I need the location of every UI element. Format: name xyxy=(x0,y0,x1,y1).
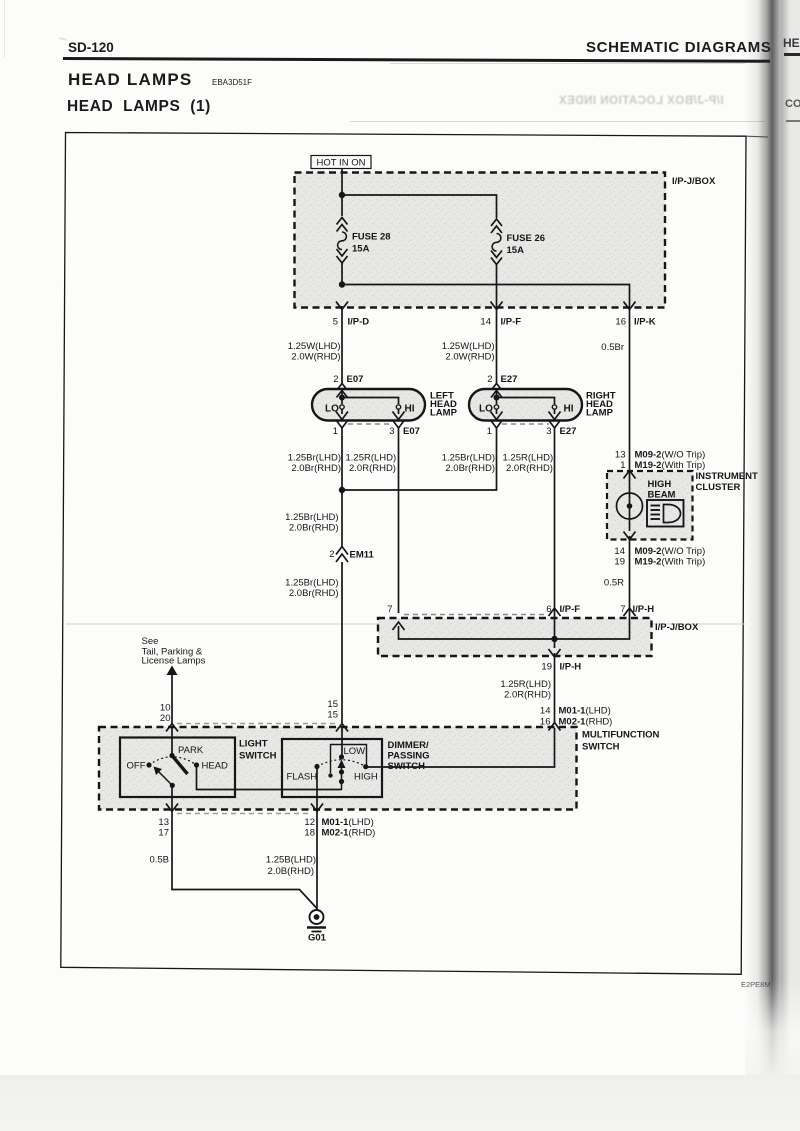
fuse F26 xyxy=(491,219,502,265)
svg-text:1.25R(LHD): 1.25R(LHD) xyxy=(346,453,397,464)
svg-text:2.0Br(RHD): 2.0Br(RHD) xyxy=(289,588,339,599)
connector pin 5 I/P-D xyxy=(336,302,348,317)
labels below EM11 xyxy=(285,578,338,600)
svg-text:19: 19 xyxy=(614,557,625,568)
svg-text:14: 14 xyxy=(480,317,491,328)
connector EM11 xyxy=(329,547,374,563)
light switch blade (thick) xyxy=(172,756,188,775)
svg-text:18: 18 xyxy=(304,828,315,839)
bottom scanner strip xyxy=(0,1075,800,1131)
svg-text:1.25Br(LHD): 1.25Br(LHD) xyxy=(285,512,338,523)
rule echo xyxy=(390,63,745,64)
lamp pin 1 chevrons xyxy=(336,409,348,428)
light switch wiper arrow xyxy=(157,770,173,786)
svg-text:12: 12 xyxy=(304,817,315,828)
svg-text:LIGHT: LIGHT xyxy=(239,739,268,750)
svg-text:M19-2(With Trip): M19-2(With Trip) xyxy=(635,460,706,471)
svg-text:1.25W(LHD): 1.25W(LHD) xyxy=(442,341,495,352)
wire: I/P-K down to cluster xyxy=(629,316,631,470)
svg-text:I/P-J/BOX: I/P-J/BOX xyxy=(655,622,699,633)
svg-text:SWITCH: SWITCH xyxy=(239,751,277,762)
connector arrow out 19 I/P-H xyxy=(549,649,561,657)
subtitle HEAD LAMPS (1) xyxy=(67,98,211,116)
wire: fuse 28 out to bus xyxy=(341,263,343,285)
svg-text:7: 7 xyxy=(387,604,392,615)
svg-text:14: 14 xyxy=(540,706,551,717)
svg-text:E27: E27 xyxy=(501,374,518,385)
light switch contacts xyxy=(169,753,174,758)
svg-text:1: 1 xyxy=(333,426,338,437)
svg-text:HOT IN ON: HOT IN ON xyxy=(317,158,366,169)
svg-text:LOW: LOW xyxy=(344,746,366,757)
label RIGHT HEAD LAMP xyxy=(586,391,616,419)
wire: junction to fuse 26 xyxy=(342,195,497,218)
svg-text:2.0Br(RHD): 2.0Br(RHD) xyxy=(291,463,341,474)
svg-text:5: 5 xyxy=(333,317,338,328)
svg-text:1.25B(LHD): 1.25B(LHD) xyxy=(266,855,316,866)
svg-text:I/P-F: I/P-F xyxy=(560,604,581,615)
svg-text:2.0B(RHD): 2.0B(RHD) xyxy=(268,866,314,877)
wire gauge labels row 2 xyxy=(288,453,554,475)
svg-text:M09-2(W/O Trip): M09-2(W/O Trip) xyxy=(635,546,706,557)
wire: HIGH across to pin 14/16 xyxy=(367,728,555,767)
dimmer blade with arrow xyxy=(341,766,343,790)
connector E07 dashed link xyxy=(348,423,393,425)
box body xyxy=(378,618,652,656)
wire: cluster down to I/P-H xyxy=(629,546,631,612)
next page sliver at right edge xyxy=(781,0,800,1075)
connector dashed link 13-12 xyxy=(177,813,312,815)
left head lamp body E07 xyxy=(312,389,425,421)
connector arrows into box xyxy=(393,622,405,630)
svg-text:1: 1 xyxy=(620,460,625,471)
svg-text:2.0R(RHD): 2.0R(RHD) xyxy=(504,690,551,701)
svg-text:0.5Br: 0.5Br xyxy=(601,342,624,353)
svg-text:FLASH: FLASH xyxy=(287,772,318,783)
svg-text:2.0Br(RHD): 2.0Br(RHD) xyxy=(445,463,495,474)
svg-text:1.25Br(LHD): 1.25Br(LHD) xyxy=(285,578,338,589)
light switch box xyxy=(120,738,235,798)
pin labels under fuse box xyxy=(333,317,656,328)
svg-text:MULTIFUNCTION: MULTIFUNCTION xyxy=(582,730,660,741)
dimmer contact arc xyxy=(317,760,366,767)
svg-text:1.25R(LHD): 1.25R(LHD) xyxy=(500,679,551,690)
svg-text:E07: E07 xyxy=(403,426,420,437)
svg-text:HIGH: HIGH xyxy=(648,479,672,490)
high beam icon xyxy=(647,500,684,527)
svg-text:20: 20 xyxy=(160,713,171,724)
header SCHEMATIC DIAGRAMS xyxy=(586,39,772,56)
connector arrow into right lamp xyxy=(491,384,503,392)
fuse box I/P-J/BOX (upper) xyxy=(295,173,666,308)
arrow to other page xyxy=(167,666,178,676)
svg-text:2: 2 xyxy=(333,374,338,385)
svg-text:2.0W(RHD): 2.0W(RHD) xyxy=(445,352,494,363)
labels above EM11 xyxy=(285,512,338,534)
svg-text:15: 15 xyxy=(327,710,338,721)
svg-text:EM11: EM11 xyxy=(350,550,375,561)
wire into PARK xyxy=(171,727,173,755)
svg-text:E07: E07 xyxy=(347,374,364,385)
svg-text:OFF: OFF xyxy=(127,761,146,772)
wire: left lamp pin1 down to junction xyxy=(341,428,343,548)
instrument cluster box xyxy=(607,471,693,540)
ground G01 xyxy=(307,910,326,932)
connector pin 16 I/P-K xyxy=(624,302,636,317)
svg-text:E27: E27 xyxy=(560,426,577,437)
connector arrow into left lamp xyxy=(336,384,348,392)
wire: left lamp pin3 down xyxy=(398,428,400,613)
wire: I/P-D to left lamp xyxy=(341,316,343,384)
node: fuse feed junction xyxy=(339,192,345,198)
svg-text:3: 3 xyxy=(389,426,394,437)
svg-text:10: 10 xyxy=(160,703,171,714)
svg-text:2.0Br(RHD): 2.0Br(RHD) xyxy=(289,523,339,534)
svg-text:0.5B: 0.5B xyxy=(149,855,169,866)
wire: 12/18 to ground xyxy=(316,816,318,910)
lower I/P-J/BOX xyxy=(378,604,699,724)
svg-text:2: 2 xyxy=(487,374,492,385)
svg-text:License Lamps: License Lamps xyxy=(142,656,206,667)
svg-text:LAMP: LAMP xyxy=(430,408,458,419)
svg-text:HI: HI xyxy=(564,404,574,415)
svg-text:1.25W(LHD): 1.25W(LHD) xyxy=(288,341,341,352)
connector arrow into cluster xyxy=(624,471,636,479)
svg-text:LAMP: LAMP xyxy=(586,408,614,419)
lamp pin 3 chevrons xyxy=(549,409,561,428)
svg-text:SWITCH: SWITCH xyxy=(582,742,620,753)
svg-text:I/P-K: I/P-K xyxy=(634,317,656,328)
dimmer/passing switch box xyxy=(282,739,382,797)
box body xyxy=(99,727,577,810)
svg-text:1.25R(LHD): 1.25R(LHD) xyxy=(503,453,554,464)
title HEAD LAMPS xyxy=(68,70,192,90)
svg-text:I/P-J/BOX: I/P-J/BOX xyxy=(672,176,716,187)
svg-text:M02-1(RHD): M02-1(RHD) xyxy=(559,717,613,728)
svg-text:M09-2(W/O Trip): M09-2(W/O Trip) xyxy=(635,450,706,461)
wire: FLASH down and out pin 12/18 xyxy=(316,767,318,817)
svg-text:HIGH: HIGH xyxy=(354,772,378,783)
svg-text:HEAD: HEAD xyxy=(202,761,229,772)
svg-text:2.0R(RHD): 2.0R(RHD) xyxy=(349,463,396,474)
left head lamp assembly xyxy=(312,374,458,437)
header SD-120 xyxy=(68,40,114,55)
svg-text:See: See xyxy=(142,636,159,647)
connector arrows into switch xyxy=(166,724,178,732)
next page heading HE xyxy=(783,36,800,50)
svg-text:1.25Br(LHD): 1.25Br(LHD) xyxy=(442,453,495,464)
wire inside left lamp xyxy=(337,389,401,409)
ghost bleed-through text xyxy=(515,95,767,111)
wire: bus to I/P-K drop xyxy=(342,285,630,307)
wire gauge labels row 1 xyxy=(288,341,624,363)
svg-text:19: 19 xyxy=(541,662,552,673)
svg-text:M01-1(LHD): M01-1(LHD) xyxy=(322,817,374,828)
wire into LOW contact xyxy=(341,727,343,757)
svg-text:M02-1(RHD): M02-1(RHD) xyxy=(322,828,376,839)
svg-text:2.0W(RHD): 2.0W(RHD) xyxy=(291,352,340,363)
title code EBA3D51F xyxy=(212,78,252,87)
node: lamp return junction xyxy=(339,487,345,493)
connector dashed link 10-15 xyxy=(177,723,337,725)
see tail parking note xyxy=(142,636,206,723)
connector E27 dashed link xyxy=(502,423,549,425)
svg-text:2.0R(RHD): 2.0R(RHD) xyxy=(506,463,553,474)
svg-text:FUSE 28: FUSE 28 xyxy=(352,232,391,243)
svg-text:M19-2(With Trip): M19-2(With Trip) xyxy=(635,557,706,568)
wire: HOT IN ON to fuse 28 xyxy=(341,169,343,217)
dimmer contacts xyxy=(339,754,344,759)
band bottom fade xyxy=(745,980,800,1075)
wire: right lamp pin1 down and across xyxy=(342,428,497,490)
page curl shadow xyxy=(745,0,790,1075)
svg-text:I/P-H: I/P-H xyxy=(633,604,655,615)
svg-text:16: 16 xyxy=(615,317,626,328)
fuse F28 xyxy=(337,218,348,264)
svg-text:FUSE 26: FUSE 26 xyxy=(507,233,546,244)
wire through indicator xyxy=(629,471,631,531)
svg-text:I/P-H: I/P-H xyxy=(560,662,582,673)
high beam indicator bulb xyxy=(617,493,643,519)
ground run xyxy=(149,816,326,944)
svg-text:DIMMER/: DIMMER/ xyxy=(388,740,430,751)
lamp pin 1 chevrons xyxy=(491,409,503,428)
HOT IN ON tag xyxy=(311,156,371,169)
svg-text:15A: 15A xyxy=(352,244,370,255)
svg-text:14: 14 xyxy=(614,546,625,557)
node: bus junction xyxy=(339,281,345,287)
wires inside box xyxy=(399,612,630,648)
svg-text:CLUSTER: CLUSTER xyxy=(696,482,741,493)
wire: EM11 down to multifunction switch xyxy=(341,562,343,723)
svg-text:I/P-D: I/P-D xyxy=(348,317,370,328)
svg-text:3: 3 xyxy=(546,426,551,437)
svg-text:13: 13 xyxy=(158,817,169,828)
lamp pin 3 chevrons xyxy=(393,409,405,428)
svg-text:M01-1(LHD): M01-1(LHD) xyxy=(559,706,611,717)
svg-text:I/P-F: I/P-F xyxy=(501,317,522,328)
wire: 13/17 to ground bus xyxy=(172,816,317,908)
outer schematic border xyxy=(61,133,746,975)
wire inside right lamp xyxy=(491,389,557,409)
wire: right lamp pin3 down xyxy=(554,428,556,612)
connector dashed link 7-6 xyxy=(404,614,548,616)
wire: I/P-F to right lamp xyxy=(496,316,498,384)
connector arrow out of cluster xyxy=(624,532,636,540)
svg-text:1.25Br(LHD): 1.25Br(LHD) xyxy=(288,453,341,464)
svg-text:BEAM: BEAM xyxy=(648,490,676,501)
connector arrows out of switch xyxy=(166,804,178,812)
wire down to multifunction xyxy=(554,662,556,724)
instrument cluster xyxy=(604,450,758,613)
right head lamp body E27 xyxy=(469,389,582,421)
svg-text:PASSING: PASSING xyxy=(388,751,430,762)
svg-text:1: 1 xyxy=(487,426,492,437)
LOW loop wire xyxy=(331,745,367,774)
right head lamp assembly xyxy=(469,374,616,437)
svg-text:HI: HI xyxy=(405,404,415,415)
svg-text:17: 17 xyxy=(158,828,169,839)
header rule xyxy=(63,57,770,63)
svg-text:15: 15 xyxy=(327,699,338,710)
wire: fuse 26 out through box xyxy=(496,265,498,307)
wire: wiper down and out pin 13/17 xyxy=(171,785,173,816)
scan artifact line xyxy=(66,623,745,625)
light switch contact arc xyxy=(149,757,197,765)
label LEFT HEAD LAMP xyxy=(430,391,458,419)
svg-text:15A: 15A xyxy=(507,245,525,256)
next page heading CO xyxy=(785,98,800,110)
multifunction switch xyxy=(99,699,660,839)
svg-text:0.5R: 0.5R xyxy=(604,578,624,589)
svg-text:PARK: PARK xyxy=(178,745,204,756)
svg-text:13: 13 xyxy=(615,450,626,461)
svg-text:G01: G01 xyxy=(308,933,327,944)
svg-text:2: 2 xyxy=(329,549,334,560)
scan edge artifacts xyxy=(4,0,5,58)
wire: HEAD contact to dimmer xyxy=(197,765,342,790)
connector pin 14 I/P-F xyxy=(491,302,503,317)
